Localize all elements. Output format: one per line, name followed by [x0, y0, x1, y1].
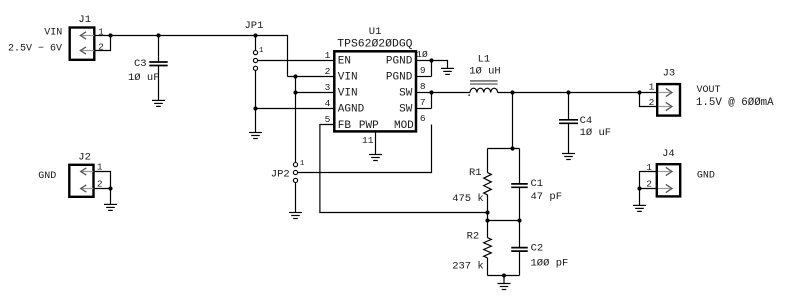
svg-text:6: 6 [420, 113, 426, 124]
ground at PWP [369, 155, 382, 161]
JP2 pin 2 [293, 170, 297, 174]
wire VOUT node down to divider [512, 93, 514, 149]
svg-text:237 k: 237 k [452, 260, 484, 272]
resistor R2 [484, 238, 492, 258]
svg-text:1Ø uF: 1Ø uF [580, 127, 612, 139]
wire U1 FB to divider [320, 125, 488, 213]
svg-text:1ØØ pF: 1ØØ pF [531, 257, 569, 269]
U1 pin 8 stub [416, 92, 432, 94]
wire J4 pin 1 to ground node [640, 172, 657, 189]
svg-text:PGND: PGND [386, 72, 413, 84]
wire C4 to ground [568, 123, 570, 153]
capacitor C3 [149, 62, 167, 66]
JP2 pin 1 [293, 163, 297, 167]
svg-text:C4: C4 [580, 115, 593, 127]
svg-text:1Ø: 1Ø [416, 49, 428, 60]
junction VIN at C3 [156, 33, 160, 37]
svg-text:1: 1 [97, 161, 103, 172]
wire AGND node to U1 pin 4 [256, 108, 335, 110]
junction divider ground [502, 273, 506, 277]
IC U1 TPS62020DGQ body [334, 51, 416, 131]
ground at JP1 [249, 133, 262, 139]
svg-text:1: 1 [649, 82, 655, 93]
svg-text:1.5V @ 6ØØmA: 1.5V @ 6ØØmA [696, 97, 774, 109]
wire J2 pin 2 [93, 188, 110, 190]
svg-text:4: 4 [325, 98, 331, 109]
svg-text:PGND: PGND [386, 56, 413, 68]
svg-text:GND: GND [38, 171, 56, 182]
svg-text:5: 5 [325, 114, 331, 125]
JP2 pin 3 [293, 178, 297, 182]
capacitor C1 bottom lead [519, 187, 521, 220]
capacitor C1 [511, 184, 528, 187]
connector J1 [70, 28, 95, 60]
junction VOUT at C4 [566, 90, 570, 94]
capacitor C2 [511, 248, 528, 252]
wire VIN to JP1 pin 1 [255, 36, 257, 51]
svg-text:JP1: JP1 [245, 20, 264, 32]
svg-text:1Ø uF: 1Ø uF [128, 72, 160, 84]
wire J1 pin 2 to pin 1 node [94, 36, 110, 51]
svg-text:C3: C3 [134, 58, 147, 70]
JP1 pin 1 [253, 51, 257, 55]
junction J4 pins [637, 186, 641, 190]
wire pin10 to pin9 bracket [431, 61, 433, 77]
junction VIN at U1 pin 3 [293, 90, 297, 94]
svg-text:1: 1 [325, 50, 331, 61]
junction SW pins [429, 90, 433, 94]
svg-text:J2: J2 [78, 151, 91, 163]
svg-text:SW: SW [399, 88, 413, 100]
svg-text:C1: C1 [531, 178, 544, 190]
svg-text:7: 7 [420, 97, 426, 108]
ground at J2 [104, 204, 117, 210]
svg-text:L1: L1 [478, 54, 491, 66]
divider middle bar [488, 220, 520, 222]
svg-text:EN: EN [338, 56, 351, 68]
ground at C3 [152, 100, 165, 106]
wire VIN node down [295, 77, 297, 163]
ground at J4 [633, 205, 646, 211]
ground at C4 [562, 154, 575, 160]
divider top bar [488, 148, 520, 150]
svg-text:PWP: PWP [359, 120, 379, 132]
wire divider to ground [503, 276, 505, 284]
connector J4 [657, 164, 680, 196]
wire pin8 to pin7 bracket [431, 93, 433, 109]
inductor L1 core bars [470, 81, 498, 84]
svg-text:2: 2 [97, 178, 103, 189]
JP1 pin 2 [253, 58, 257, 62]
wire J4 to ground [639, 189, 641, 206]
divider bottom bar [488, 275, 520, 277]
junction J1 pins [108, 33, 112, 37]
svg-text:8: 8 [420, 81, 426, 92]
junction J2 pins [108, 186, 112, 190]
junction PGND pins [429, 58, 433, 62]
JP1 pin 3 [253, 66, 257, 70]
svg-text:1: 1 [300, 160, 305, 168]
wire C3 to ground [158, 66, 160, 101]
L1 pin 1 marker dot [468, 94, 470, 96]
svg-text:11: 11 [362, 135, 374, 146]
wire J2 pin 1 to ground node [93, 172, 110, 189]
svg-text:MOD: MOD [394, 120, 414, 132]
junction divider mid left [485, 218, 489, 222]
wire VIN to C3 [158, 36, 160, 63]
junction VIN at JP1 [253, 33, 257, 37]
svg-text:FB: FB [338, 120, 352, 132]
svg-text:R1: R1 [469, 167, 482, 179]
svg-text:2.5V − 6V: 2.5V − 6V [8, 44, 62, 55]
junction divider mid right [517, 218, 521, 222]
svg-text:475 k: 475 k [452, 193, 484, 205]
junction AGND node [253, 106, 257, 110]
svg-text:JP2: JP2 [271, 169, 290, 181]
svg-text:VIN: VIN [338, 72, 358, 84]
capacitor C2 top lead [519, 221, 521, 248]
ground at JP2 [289, 213, 302, 219]
U1 pin 9 stub [416, 76, 432, 78]
svg-text:VIN: VIN [338, 88, 358, 100]
svg-text:J4: J4 [662, 148, 675, 160]
resistor R1 [484, 173, 492, 195]
wire JP1 pin 3 down [255, 70, 257, 108]
svg-text:J1: J1 [78, 14, 91, 26]
svg-text:R2: R2 [467, 231, 480, 243]
resistor R1 bottom lead [487, 195, 489, 238]
wire J2 to ground [110, 189, 112, 205]
svg-text:2: 2 [325, 66, 331, 77]
junction VOUT at J3 [637, 90, 641, 94]
junction VIN node [293, 74, 297, 78]
wire L1 to J3 [498, 92, 658, 94]
svg-text:47 pF: 47 pF [531, 191, 563, 203]
ground at PGND [441, 68, 454, 74]
U1 pin 11 PWP stub [375, 131, 377, 154]
svg-text:SW: SW [399, 104, 413, 116]
wire VIN corner down [287, 35, 289, 77]
capacitor C4 [559, 120, 578, 124]
svg-text:GND: GND [697, 171, 715, 182]
resistor R2 bottom lead [487, 258, 489, 276]
svg-text:C2: C2 [531, 242, 544, 254]
U1 pin 7 stub [416, 108, 432, 110]
junction FB at R1 [485, 210, 489, 214]
svg-text:3: 3 [325, 82, 331, 93]
ground at divider [498, 284, 511, 290]
svg-text:J3: J3 [663, 68, 676, 80]
connector J2 [69, 165, 93, 197]
junction VOUT at divider [510, 90, 514, 94]
junction divider top [510, 146, 514, 150]
svg-text:VIN: VIN [44, 28, 62, 39]
wire VIN J1 to corner [94, 35, 287, 37]
wire PGND to ground [432, 61, 448, 69]
connector J3 [657, 84, 680, 116]
wire JP2 pin 3 to ground [295, 183, 297, 213]
svg-text:VOUT: VOUT [697, 85, 721, 96]
capacitor C1 top lead [519, 149, 521, 184]
wire J4 pin 2 [640, 188, 657, 190]
svg-text:AGND: AGND [338, 104, 365, 116]
wire J3 pin 2 to VOUT [640, 93, 658, 107]
resistor R1 top lead [487, 149, 489, 173]
wire AGND node to ground [255, 109, 257, 133]
svg-text:TPS62Ø2ØDGQ: TPS62Ø2ØDGQ [337, 38, 412, 50]
capacitor C2 bottom lead [519, 251, 521, 275]
wire VIN to U1 pin 3 [296, 92, 335, 94]
svg-text:1Ø uH: 1Ø uH [469, 65, 501, 77]
svg-text:9: 9 [420, 65, 426, 76]
U1 pin 10 stub [416, 60, 432, 62]
svg-text:U1: U1 [369, 26, 382, 38]
inductor L1 winding [470, 88, 498, 92]
wire JP1 pin 2 to U1 EN [258, 60, 335, 62]
svg-text:1: 1 [259, 47, 264, 55]
wire JP2 pin 2 to U1 MOD [298, 125, 432, 173]
wire SW to L1 [432, 92, 471, 94]
wire VIN to U1 pin 2 [288, 76, 335, 78]
wire VOUT to C4 [568, 93, 570, 120]
